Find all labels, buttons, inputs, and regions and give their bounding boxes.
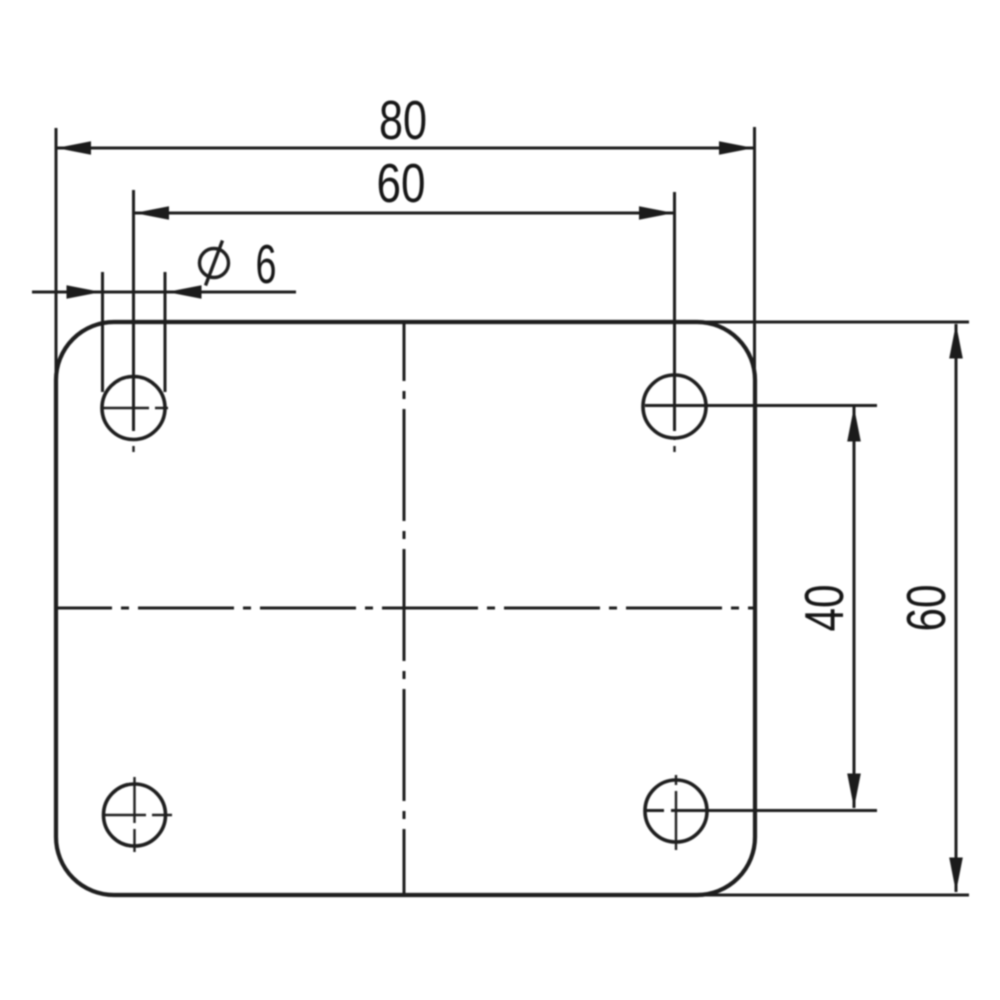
extension line bottom for dim 40 (from bottom-right hole center): [646, 809, 877, 812]
hole bottom-right: [645, 780, 707, 842]
arrow 60 right down: [949, 858, 963, 893]
hole top-left: [102, 377, 165, 440]
dimension line 80: [56, 147, 754, 150]
extension line hole edge right for dim diameter 6: [164, 272, 167, 392]
arrow 60 right up: [949, 324, 963, 359]
extension line hole edge left for dim diameter 6: [101, 272, 104, 392]
arrow 60 top left: [135, 206, 170, 220]
hole top-right: [643, 375, 706, 438]
hole bottom-right vertical crosshair: [675, 775, 677, 850]
extension line right for dim 60 top (through top-right hole): [673, 192, 676, 431]
extension line left for dim 80: [55, 128, 58, 380]
diameter symbol: [200, 241, 229, 286]
arrow 40 up: [847, 407, 861, 442]
arrow 80 left: [57, 141, 92, 155]
hole top-left vertical crosshair dash below: [132, 438, 134, 452]
extension line left for dim 60 top (through top-left hole): [132, 190, 135, 431]
svg-text:60: 60: [377, 152, 426, 214]
hole bottom-left vertical crosshair: [133, 777, 135, 852]
arrow diameter 6 pointing left: [167, 285, 202, 299]
svg-text:80: 80: [379, 89, 427, 151]
extension line top for dim 40 (from top-right hole center): [645, 404, 877, 407]
plate outline: [56, 322, 755, 895]
dimension line 60 top: [134, 212, 673, 215]
svg-text:6: 6: [256, 233, 277, 295]
arrow 60 top right: [639, 206, 674, 220]
arrow 80 right: [719, 141, 754, 155]
extension line right for dim 80: [753, 127, 756, 385]
vertical center line of plate: [403, 323, 406, 894]
hole top-left horizontal crosshair: [101, 407, 168, 409]
dimension line 40: [853, 407, 856, 808]
horizontal center line of plate: [56, 607, 753, 610]
svg-text:40: 40: [793, 585, 855, 632]
hole bottom-left horizontal crosshair: [102, 814, 172, 816]
extension line top for dim 60 right (plate top edge extended): [695, 321, 969, 324]
dimension line diameter 6: [32, 291, 296, 294]
hole bottom-left: [104, 784, 166, 846]
hole top-right vertical crosshair dash below: [673, 438, 675, 452]
arrow diameter 6 pointing right: [67, 285, 102, 299]
arrow 40 down: [847, 774, 861, 809]
dimension line 60 right: [955, 324, 958, 892]
extension line bottom for dim 60 right (plate bottom edge extended): [697, 894, 969, 897]
svg-text:60: 60: [895, 585, 957, 632]
